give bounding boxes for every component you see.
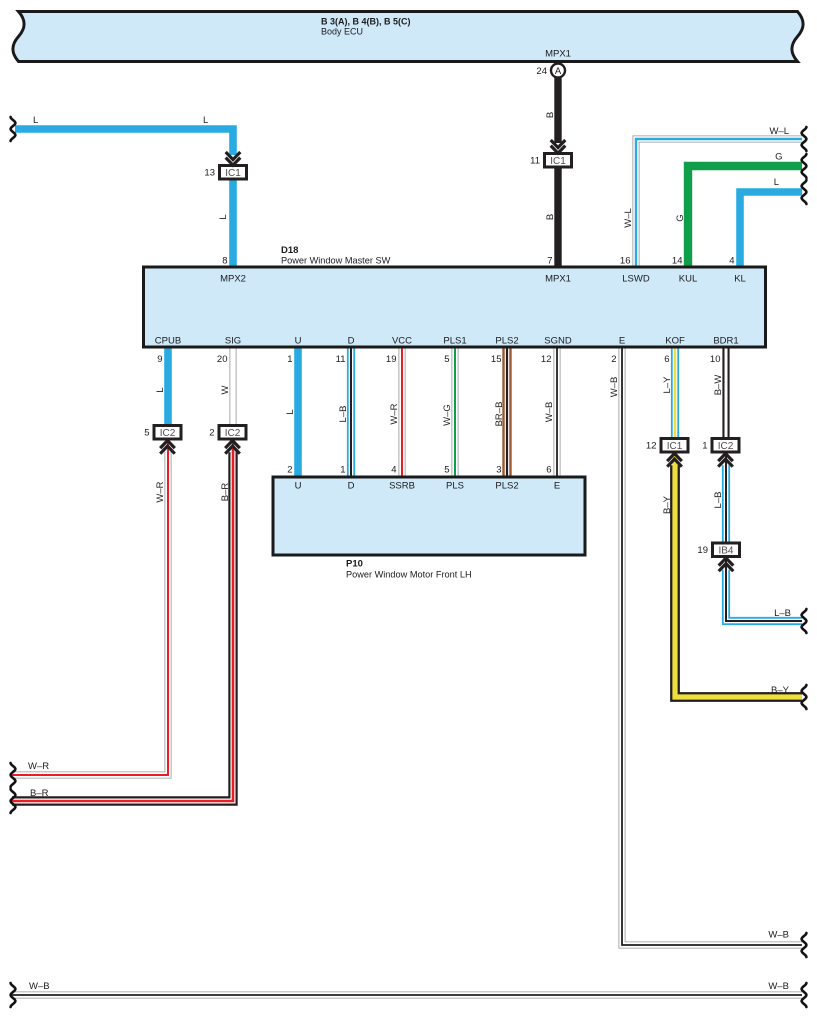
wire break xyxy=(802,180,807,204)
svg-text:PLS2: PLS2 xyxy=(495,481,518,492)
wire L from Body ECU left xyxy=(15,129,233,155)
svg-text:CPUB: CPUB xyxy=(155,336,181,347)
svg-text:Power Window Master SW: Power Window Master SW xyxy=(281,256,391,266)
svg-text:2: 2 xyxy=(209,428,214,439)
svg-text:L: L xyxy=(285,409,296,414)
svg-text:3: 3 xyxy=(496,465,501,476)
wire W-B D18 SGND to P10 E xyxy=(554,347,561,477)
svg-text:D18: D18 xyxy=(281,245,298,256)
svg-text:10: 10 xyxy=(710,354,721,365)
svg-text:B–Y: B–Y xyxy=(662,495,673,514)
P10 Power Window Motor Front LH box xyxy=(273,477,585,580)
svg-text:L: L xyxy=(203,115,208,126)
svg-text:L–Y: L–Y xyxy=(662,376,673,394)
svg-text:VCC: VCC xyxy=(392,336,412,347)
connector IC1 (KOF) xyxy=(646,439,688,467)
svg-text:11: 11 xyxy=(336,354,346,365)
svg-text:E: E xyxy=(554,481,560,492)
svg-text:IC1: IC1 xyxy=(667,441,683,452)
svg-text:B: B xyxy=(545,214,556,220)
svg-text:2: 2 xyxy=(611,354,616,365)
svg-text:BR–B: BR–B xyxy=(494,402,505,427)
svg-text:9: 9 xyxy=(157,354,162,365)
wire break xyxy=(802,685,807,709)
svg-text:L: L xyxy=(774,177,779,188)
svg-text:L: L xyxy=(33,115,38,126)
svg-text:MPX1: MPX1 xyxy=(545,274,571,285)
svg-text:IC1: IC1 xyxy=(550,156,566,167)
svg-text:12: 12 xyxy=(541,354,552,365)
wire L from D18 CPUB pin 9 xyxy=(164,347,172,426)
wire G to D18 pin 14 KUL xyxy=(688,166,802,267)
wire break xyxy=(11,789,16,813)
wire B-Y from IC1 to right xyxy=(675,453,802,698)
wire break xyxy=(11,983,16,1007)
svg-text:W–B: W–B xyxy=(544,402,555,423)
svg-text:11: 11 xyxy=(530,156,540,167)
svg-text:7: 7 xyxy=(547,256,552,267)
wire break xyxy=(11,117,16,141)
svg-text:W–B: W–B xyxy=(609,377,620,398)
svg-text:6: 6 xyxy=(664,354,669,365)
svg-text:L: L xyxy=(155,387,166,392)
connector IC2 (CPUB) xyxy=(144,426,181,454)
wire L into D18 pin 8 xyxy=(229,179,237,268)
svg-text:P10: P10 xyxy=(346,559,363,570)
connector IC2 (SIG) xyxy=(209,426,246,454)
svg-text:Power Window Motor Front LH: Power Window Motor Front LH xyxy=(346,570,472,580)
svg-text:IC1: IC1 xyxy=(225,168,241,179)
svg-text:U: U xyxy=(295,336,302,347)
svg-text:PLS: PLS xyxy=(446,481,464,492)
connector IB4 (BDR1 lower) xyxy=(697,543,739,571)
svg-text:W–B: W–B xyxy=(768,930,789,941)
wire L-B D18 D to P10 D xyxy=(347,347,355,477)
wire W-B bottom bus xyxy=(12,992,802,999)
wire L-B from IC2 to IB4 xyxy=(722,453,730,543)
P10 pin numbers xyxy=(287,465,551,476)
svg-text:W–R: W–R xyxy=(155,481,166,502)
rotated wire labels xyxy=(155,112,724,514)
svg-text:1: 1 xyxy=(340,465,345,476)
wire B from MPX1 node A xyxy=(554,78,561,144)
svg-text:BDR1: BDR1 xyxy=(713,336,738,347)
wire B into D18 pin 7 xyxy=(554,167,561,268)
svg-text:B–W: B–W xyxy=(713,375,724,396)
svg-text:8: 8 xyxy=(222,256,227,267)
svg-text:24: 24 xyxy=(536,66,547,77)
connector IC1 (top left) xyxy=(204,152,246,179)
svg-text:B–R: B–R xyxy=(30,788,49,799)
wire B-W from D18 BDR1 pin 10 xyxy=(722,347,729,439)
wire W-R from IC2 to left xyxy=(12,440,168,775)
svg-text:LSWD: LSWD xyxy=(622,274,650,285)
svg-text:IB4: IB4 xyxy=(718,546,733,557)
svg-text:IC2: IC2 xyxy=(718,441,734,452)
svg-text:SGND: SGND xyxy=(544,336,572,347)
svg-text:MPX1: MPX1 xyxy=(545,49,571,60)
svg-text:5: 5 xyxy=(144,428,149,439)
svg-text:L–B: L–B xyxy=(713,492,724,509)
svg-text:20: 20 xyxy=(217,354,228,365)
svg-text:W: W xyxy=(220,385,231,394)
node A (MPX1 junction 24) xyxy=(536,64,565,78)
svg-text:KL: KL xyxy=(734,274,746,285)
svg-text:PLS1: PLS1 xyxy=(443,336,466,347)
svg-text:5: 5 xyxy=(444,354,449,365)
svg-text:16: 16 xyxy=(620,256,631,267)
svg-text:12: 12 xyxy=(646,441,657,452)
wire break xyxy=(11,763,16,787)
wire W-B from D18 E pin 2 xyxy=(622,347,802,945)
D18 Power Window Master SW box xyxy=(144,245,766,347)
svg-text:W–B: W–B xyxy=(29,981,50,992)
svg-text:W–R: W–R xyxy=(28,761,49,772)
svg-text:SSRB: SSRB xyxy=(389,481,415,492)
wire break xyxy=(802,983,807,1007)
svg-text:B–R: B–R xyxy=(220,483,231,502)
svg-text:IC2: IC2 xyxy=(225,428,241,439)
svg-text:19: 19 xyxy=(386,354,397,365)
connector IC2 (BDR1) xyxy=(702,439,739,467)
Body ECU box (B 3(A), B 4(B), B 5(C)) xyxy=(13,12,803,62)
wire break xyxy=(802,609,807,633)
svg-text:L–B: L–B xyxy=(338,406,349,423)
svg-text:W–L: W–L xyxy=(623,208,634,228)
wire BR-B D18 PLS2 to P10 PLS2 xyxy=(502,347,511,477)
svg-text:D: D xyxy=(348,481,355,492)
wire B-R from IC2 to left xyxy=(12,440,233,801)
svg-text:W–G: W–G xyxy=(442,404,453,426)
wire W from D18 SIG pin 20 xyxy=(230,347,237,426)
svg-text:KOF: KOF xyxy=(665,336,685,347)
wire L-Y from D18 KOF pin 6 xyxy=(671,347,679,439)
svg-text:14: 14 xyxy=(672,256,683,267)
svg-text:4: 4 xyxy=(729,256,734,267)
wire break xyxy=(802,127,807,151)
svg-text:L–B: L–B xyxy=(774,608,791,619)
svg-text:W–R: W–R xyxy=(389,403,400,424)
wire L to D18 pin 4 KL xyxy=(740,192,802,267)
svg-text:G: G xyxy=(775,152,782,163)
svg-text:G: G xyxy=(675,214,686,221)
svg-text:6: 6 xyxy=(546,465,551,476)
svg-text:4: 4 xyxy=(391,465,396,476)
svg-text:2: 2 xyxy=(287,465,292,476)
svg-text:IC2: IC2 xyxy=(160,428,176,439)
svg-text:1: 1 xyxy=(702,441,707,452)
wire W-L to D18 pin 16 LSWD xyxy=(636,139,802,267)
svg-text:15: 15 xyxy=(491,354,502,365)
svg-text:W–L: W–L xyxy=(769,126,789,137)
wire labels xyxy=(28,115,791,992)
svg-text:B–Y: B–Y xyxy=(771,685,790,696)
svg-text:KUL: KUL xyxy=(679,274,697,285)
svg-text:E: E xyxy=(619,336,625,347)
svg-text:W–B: W–B xyxy=(768,981,789,992)
connector IC1 (top mid) xyxy=(530,140,571,167)
svg-text:MPX2: MPX2 xyxy=(220,274,246,285)
svg-text:Body ECU: Body ECU xyxy=(321,27,363,37)
svg-text:SIG: SIG xyxy=(225,336,241,347)
wire W-R D18 VCC to P10 SSRB xyxy=(399,347,406,477)
svg-text:19: 19 xyxy=(697,545,708,556)
svg-text:B: B xyxy=(545,112,556,118)
svg-text:D: D xyxy=(348,336,355,347)
svg-text:A: A xyxy=(555,66,562,77)
svg-text:PLS2: PLS2 xyxy=(495,336,518,347)
svg-text:L: L xyxy=(218,214,229,219)
svg-text:B 3(A), B 4(B), B 5(C): B 3(A), B 4(B), B 5(C) xyxy=(321,17,411,27)
svg-text:1: 1 xyxy=(287,354,292,365)
svg-text:U: U xyxy=(295,481,302,492)
D18 pin numbers xyxy=(157,256,734,366)
wire W-G D18 PLS1 to P10 PLS xyxy=(452,347,459,477)
wire L D18 U to P10 U xyxy=(294,347,302,477)
svg-text:5: 5 xyxy=(444,465,449,476)
svg-text:13: 13 xyxy=(204,168,215,179)
wire break xyxy=(802,933,807,957)
wire break xyxy=(802,154,807,178)
wire L-B from IB4 to right xyxy=(726,558,802,622)
